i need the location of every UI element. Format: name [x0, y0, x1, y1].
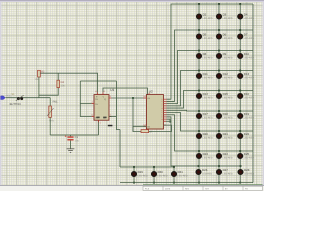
ground symbol below C1 — [67, 149, 75, 153]
LED D7 — [238, 34, 243, 39]
net label bar below U1 — [108, 125, 113, 127]
wire: U2 output to LED row 1 bus — [167, 4, 253, 99]
wire: LED column rail 2 — [218, 4, 220, 183]
svg-text:D26: D26 — [202, 168, 208, 172]
LED D15 — [217, 94, 222, 99]
wire: U2 output to LED row 4 bus — [167, 71, 253, 106]
wire: U2 output to LED row 9 bus — [167, 117, 241, 166]
junction dots on LED matrix — [133, 3, 241, 183]
svg-text:D16: D16 — [244, 92, 250, 96]
wire: row10 LED drop 2 — [153, 167, 155, 183]
svg-text:D10: D10 — [244, 52, 250, 56]
LED D20 — [197, 134, 202, 139]
resistor R2 — [38, 70, 41, 77]
window right edge strip — [263, 2, 265, 186]
wire: TR/TH top rail — [80, 80, 116, 82]
U1 internal pin name texts — [95, 96, 106, 120]
LED D8 — [197, 54, 202, 59]
LED D4 — [238, 14, 243, 19]
svg-text:R4: R4 — [61, 81, 65, 84]
LED D10 — [238, 54, 243, 59]
LED D30 — [152, 172, 157, 177]
potentiometer RV1 — [47, 106, 54, 117]
svg-text:BUTTON: BUTTON — [10, 103, 21, 106]
svg-text:LED-RED: LED-RED — [244, 116, 254, 119]
push button S1 — [16, 95, 24, 101]
wire: U2 output to LED row 7 bus — [167, 113, 253, 131]
U1 pin numbers — [92, 90, 112, 124]
svg-text:LED-RED: LED-RED — [203, 156, 213, 159]
svg-text:D27: D27 — [223, 168, 229, 172]
wire: U2 output to LED row 3 bus — [167, 51, 253, 104]
svg-text:10u: 10u — [75, 140, 80, 143]
svg-text:D4: D4 — [244, 13, 248, 17]
wire: rail to C1 — [70, 135, 72, 136]
junction node on Q net — [132, 97, 134, 99]
svg-text:D17: D17 — [203, 112, 209, 116]
svg-text:D5: D5 — [203, 33, 207, 37]
svg-text:D2: D2 — [203, 13, 207, 17]
window left edge strip — [0, 2, 2, 186]
wire: LED column rail 1 — [198, 4, 200, 183]
U2 internal texts — [147, 97, 150, 128]
wire: row 10 bus — [120, 166, 174, 168]
LED D13 — [238, 74, 243, 79]
svg-text:REV: REV — [185, 187, 190, 190]
svg-text:D6: D6 — [223, 33, 227, 37]
svg-text:LED-RED: LED-RED — [244, 17, 254, 20]
svg-text:D13: D13 — [244, 72, 250, 76]
svg-text:S1: S1 — [11, 93, 15, 96]
op IC U1 (555 timer) body — [94, 95, 109, 121]
wire: U2 output to LED row 8 bus — [167, 115, 253, 151]
LED D25 — [238, 154, 243, 159]
wire: input net down to RV1 — [49, 98, 51, 106]
svg-text:LED-RED: LED-RED — [244, 96, 254, 99]
svg-text:LED-RED: LED-RED — [244, 156, 254, 159]
svg-text:D11: D11 — [203, 72, 208, 76]
svg-text:D3: D3 — [223, 13, 227, 17]
wire: row10 LED drop 1 — [133, 167, 135, 183]
resistor R5 in reset loop — [141, 130, 149, 133]
svg-text:D8: D8 — [203, 52, 207, 56]
svg-text:D15: D15 — [223, 92, 229, 96]
U1 pin stubs — [92, 92, 112, 122]
LED D16 — [238, 94, 243, 99]
title block texts — [145, 187, 248, 190]
svg-text:LED-RED: LED-RED — [244, 37, 254, 40]
svg-text:LED-RED: LED-RED — [223, 76, 233, 79]
svg-text:D22: D22 — [244, 132, 250, 136]
LED D27 — [217, 170, 222, 175]
svg-text:D7: D7 — [244, 33, 248, 37]
LED D23 — [197, 154, 202, 159]
wire: U2 output to LED row 2 bus — [167, 30, 253, 101]
wire: bottom return rail — [120, 182, 253, 184]
svg-text:D30: D30 — [158, 170, 164, 174]
svg-text:LED-RED: LED-RED — [203, 136, 213, 139]
svg-text:LED-RED: LED-RED — [223, 96, 233, 99]
sheet bottom margin — [0, 186, 264, 192]
LED D24 — [217, 154, 222, 159]
svg-text:D25: D25 — [244, 152, 250, 156]
wire: left tie rise to top rail — [79, 81, 81, 104]
title block table — [143, 184, 263, 190]
svg-text:D9: D9 — [223, 52, 227, 56]
LED D31 — [172, 172, 177, 177]
wire: input net rise to R4 — [39, 88, 58, 96]
wire: U1 left pins tie (TR-TH) — [80, 104, 91, 117]
svg-text:LED-RED: LED-RED — [138, 174, 148, 177]
LED D18 — [217, 114, 222, 119]
wire: U1 Q output to U2 CLK — [111, 97, 146, 99]
wire: LED column rail 3 — [239, 4, 241, 183]
LED D21 — [217, 134, 222, 139]
wire: terminal to button and R4 (net IN) — [6, 97, 51, 99]
U2 reset loop wire — [133, 125, 172, 131]
LED D14 — [197, 94, 202, 99]
svg-text:LED-RED: LED-RED — [223, 56, 233, 59]
U2 left/top pin stubs — [143, 98, 166, 126]
wire: right return rail — [252, 4, 254, 183]
LED D26 — [196, 170, 201, 175]
LED D17 — [197, 114, 202, 119]
svg-text:D24: D24 — [223, 152, 229, 156]
svg-text:11: 11 — [161, 118, 163, 121]
wire: DC net vertical — [116, 81, 120, 130]
svg-text:D23: D23 — [203, 152, 209, 156]
wire: U2 output to LED row 5 bus — [167, 91, 253, 109]
svg-text:D20: D20 — [203, 132, 209, 136]
wire: U1 GND pin to rail — [98, 120, 100, 135]
sheet background — [0, 0, 264, 191]
svg-text:LED-RED: LED-RED — [244, 136, 254, 139]
ground rail wire — [50, 134, 98, 136]
svg-text:LED-RED: LED-RED — [178, 174, 188, 177]
wire: pin15 stub tie — [166, 120, 172, 122]
svg-text:LED-RED: LED-RED — [202, 172, 212, 175]
LED D12 — [217, 74, 222, 79]
LED D29 — [132, 172, 137, 177]
svg-text:D28: D28 — [244, 168, 250, 172]
wire: node to row10 bus feed — [119, 130, 121, 168]
U2 pin numbers left — [143, 92, 151, 127]
svg-text:LED-RED: LED-RED — [223, 172, 233, 175]
LED D28 — [238, 170, 243, 175]
svg-text:LED-RED: LED-RED — [203, 96, 213, 99]
LED D19 — [238, 114, 243, 119]
svg-text:LED-RED: LED-RED — [244, 56, 254, 59]
wire: U1 pin8 to U2 pin16 VCC — [103, 88, 147, 95]
svg-text:D31: D31 — [178, 170, 184, 174]
svg-text:RV1: RV1 — [53, 100, 59, 103]
svg-text:LED-RED: LED-RED — [203, 37, 213, 40]
LED D9 — [217, 54, 222, 59]
svg-text:LED-RED: LED-RED — [223, 136, 233, 139]
svg-text:LED-RED: LED-RED — [223, 116, 233, 119]
svg-text:LED-RED: LED-RED — [244, 76, 254, 79]
window top edge strip — [0, 0, 264, 2]
wire: row10 LED drop 3 — [173, 167, 175, 183]
svg-text:D12: D12 — [223, 72, 229, 76]
svg-text:U1: U1 — [110, 88, 114, 92]
IC U2 (4017 counter) body — [146, 95, 163, 129]
wire: RV1 bottom to ground rail — [49, 117, 51, 135]
svg-text:FILE: FILE — [145, 187, 150, 190]
resistor R4 — [57, 80, 60, 87]
svg-text:DATE: DATE — [165, 187, 171, 190]
wire: C1 to ground — [70, 141, 72, 149]
wire: Q net down to reset loop — [132, 98, 134, 132]
LED D5 — [197, 34, 202, 39]
wire: R4 top tap to rail — [57, 73, 59, 80]
LED D11 — [197, 74, 202, 79]
LED D22 — [238, 134, 243, 139]
svg-text:D29: D29 — [138, 170, 144, 174]
svg-text:LED-RED: LED-RED — [203, 116, 213, 119]
LED D6 — [217, 34, 222, 39]
svg-text:D14: D14 — [203, 92, 209, 96]
svg-text:D19: D19 — [244, 112, 250, 116]
svg-text:LED-RED: LED-RED — [223, 17, 233, 20]
wire: U2 output to LED row 6 bus — [167, 109, 253, 112]
LED D2 — [197, 14, 202, 19]
svg-text:LED-RED: LED-RED — [158, 174, 168, 177]
svg-text:LED-RED: LED-RED — [223, 156, 233, 159]
terminal J1 (power input arrow) — [1, 96, 6, 100]
svg-text:LED-RED: LED-RED — [223, 37, 233, 40]
svg-text:LED-RED: LED-RED — [244, 172, 254, 175]
wire: U2 last output stub — [167, 119, 170, 123]
wire: R2 top rail to U1 pin4 — [40, 73, 97, 92]
U2 output pin stubs Q0-Q9 — [164, 99, 167, 119]
svg-text:D18: D18 — [223, 112, 229, 116]
svg-text:LED-RED: LED-RED — [203, 17, 213, 20]
LED D3 — [217, 14, 222, 19]
svg-text:LED-RED: LED-RED — [203, 56, 213, 59]
svg-text:PG: PG — [245, 187, 248, 190]
U2 output pin numbers column — [161, 98, 163, 121]
wire: U1 pin7 riser — [109, 116, 116, 118]
svg-text:D21: D21 — [223, 132, 229, 136]
svg-text:LED-RED: LED-RED — [203, 76, 213, 79]
capacitor C1 (electrolytic) — [65, 135, 74, 140]
wire: R2 bottom to input net — [38, 77, 40, 98]
